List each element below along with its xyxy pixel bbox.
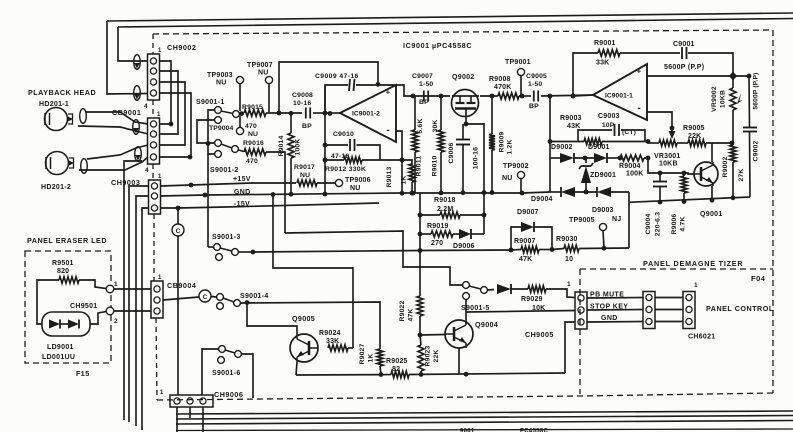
svg-text:33K: 33K bbox=[596, 60, 609, 67]
wire CB9004 pin2 to C node bbox=[163, 297, 199, 300]
wire switch bus lower contacts bbox=[197, 120, 215, 143]
svg-text:C9005: C9005 bbox=[526, 73, 547, 80]
shield ellipse CB9001 pin1 bbox=[133, 120, 140, 135]
svg-text:C9002: C9002 bbox=[753, 140, 760, 161]
wire S9001-3 arm to mute rail bbox=[238, 251, 253, 253]
svg-text:BP: BP bbox=[302, 123, 312, 130]
svg-text:R9004: R9004 bbox=[619, 163, 641, 170]
svg-text:220-6.3: 220-6.3 bbox=[655, 212, 662, 236]
svg-text:10-16: 10-16 bbox=[293, 100, 311, 107]
svg-text:IC9001: IC9001 bbox=[403, 41, 430, 50]
diode D9008 mute bbox=[487, 289, 494, 292]
wire limiter left column bbox=[549, 96, 551, 192]
wire terminal2 to CB9004 pin3 bbox=[114, 310, 151, 312]
svg-text:C9003: C9003 bbox=[598, 113, 620, 120]
wire bottom border line 3 bbox=[176, 421, 793, 425]
wire GND drop to drive line bbox=[273, 195, 353, 349]
svg-text:R9009: R9009 bbox=[499, 131, 506, 152]
svg-text:Q9004: Q9004 bbox=[475, 320, 498, 329]
wire top outer rail bbox=[107, 13, 793, 21]
wire S9001-6 arm stub bbox=[241, 354, 253, 398]
svg-text:NU: NU bbox=[248, 131, 258, 138]
wire into IC9001-2 output node bbox=[325, 112, 340, 114]
svg-text:D9003: D9003 bbox=[592, 207, 614, 214]
svg-text:1K: 1K bbox=[401, 175, 408, 184]
wire bottom left rail bbox=[296, 374, 391, 376]
svg-text:PLAYBACK HEAD: PLAYBACK HEAD bbox=[28, 88, 96, 97]
dashed main circuit boundary top bbox=[153, 30, 773, 34]
svg-text:R9024: R9024 bbox=[319, 330, 341, 337]
svg-text:PANEL ERASER LED: PANEL ERASER LED bbox=[27, 236, 107, 245]
wire Q9004 base bbox=[420, 334, 445, 337]
svg-text:ZD9001: ZD9001 bbox=[590, 172, 616, 179]
test point TP9006 bbox=[317, 182, 335, 184]
wire S9001-2 arm to R9016 bbox=[238, 150, 244, 152]
svg-text:PANEL CONTROL: PANEL CONTROL bbox=[706, 304, 774, 313]
svg-text:CH9005: CH9005 bbox=[525, 330, 554, 339]
wire left outer drop to shield bbox=[107, 21, 148, 94]
svg-text:R9001: R9001 bbox=[594, 40, 616, 47]
svg-text:Q9001: Q9001 bbox=[700, 211, 723, 218]
svg-text:1.2K: 1.2K bbox=[507, 139, 514, 154]
svg-text:D9004: D9004 bbox=[531, 196, 553, 203]
svg-text:100K: 100K bbox=[295, 138, 302, 155]
wire R9016 output to mute line bbox=[266, 152, 285, 233]
wire terminal1 to CB9004 pin1 bbox=[114, 288, 151, 290]
svg-text:470: 470 bbox=[245, 123, 257, 130]
svg-text:NU: NU bbox=[216, 80, 227, 87]
svg-text:-: - bbox=[386, 125, 389, 136]
svg-text:R9016: R9016 bbox=[243, 140, 264, 147]
svg-text:R9014: R9014 bbox=[278, 135, 285, 156]
wire Q9004 emitter bbox=[458, 348, 460, 374]
wire HD201-2 return to CB9001 pin4 bbox=[79, 157, 148, 170]
wire output node to tip bbox=[573, 95, 593, 96]
svg-text:5.6K: 5.6K bbox=[417, 118, 424, 133]
svg-text:R9013: R9013 bbox=[386, 166, 393, 187]
wire CB9001 shield drop bbox=[124, 161, 142, 420]
svg-text:R9008: R9008 bbox=[489, 76, 511, 83]
svg-text:C9007: C9007 bbox=[412, 73, 433, 80]
svg-text:PC4558C: PC4558C bbox=[520, 429, 548, 432]
svg-text:CH9501: CH9501 bbox=[70, 303, 97, 310]
wire S9001-4 arm line bbox=[240, 302, 380, 349]
wire GND rail to diode limiter bbox=[522, 192, 550, 193]
svg-text:NU: NU bbox=[258, 70, 269, 77]
svg-text:C: C bbox=[176, 228, 181, 235]
svg-text:TP9002: TP9002 bbox=[503, 163, 529, 170]
terminal 2 bbox=[106, 307, 114, 315]
svg-text:1: 1 bbox=[567, 281, 571, 288]
svg-text:S9001-6: S9001-6 bbox=[212, 370, 241, 377]
svg-text:100K: 100K bbox=[626, 171, 644, 178]
svg-text:D9001: D9001 bbox=[588, 144, 610, 151]
svg-text:R9018: R9018 bbox=[434, 197, 456, 204]
wire non-inverting input rail bbox=[647, 75, 749, 77]
svg-text:NJ: NJ bbox=[612, 216, 621, 223]
wire pin rows to CH6021 bbox=[655, 297, 683, 299]
svg-text:2: 2 bbox=[114, 318, 118, 325]
wire mute rail bbox=[253, 250, 511, 252]
svg-text:+15V: +15V bbox=[233, 176, 251, 183]
chassis node circle C lower bbox=[199, 290, 211, 302]
op-amp IC9001-2 bbox=[340, 85, 396, 142]
wire Q9005 emitter to rail bbox=[296, 362, 297, 375]
svg-text:1: 1 bbox=[114, 281, 118, 288]
wire S9001-6 contact to CH9006 bbox=[202, 349, 219, 395]
svg-text:R9017: R9017 bbox=[294, 164, 315, 171]
svg-text:R9012 330K: R9012 330K bbox=[325, 166, 366, 173]
wire CH9002 pin3 to CB9001 pin3 bbox=[160, 82, 186, 145]
wire Q9002 source node bbox=[464, 122, 469, 127]
wire signal main into first stage bbox=[266, 112, 302, 114]
wire S9001-5 lower contact to collector line bbox=[465, 299, 467, 312]
wire CH9002 pin2 to CB9001 pin2 bbox=[160, 71, 179, 134]
svg-text:S9001-1: S9001-1 bbox=[196, 99, 225, 106]
svg-text:S9001-2: S9001-2 bbox=[210, 167, 239, 174]
wire inverting input to VR3001 wiper bbox=[647, 112, 672, 128]
svg-text:TP9001: TP9001 bbox=[505, 59, 531, 66]
svg-text:C9001: C9001 bbox=[673, 41, 695, 48]
svg-text:10: 10 bbox=[565, 256, 573, 263]
svg-text:BP: BP bbox=[529, 103, 539, 110]
chassis node circle C upper bbox=[177, 208, 179, 224]
svg-text:820: 820 bbox=[57, 268, 69, 275]
wire CH9002 pin1 to CB9001 pin1 bbox=[160, 61, 172, 124]
svg-text:D9002: D9002 bbox=[551, 144, 573, 151]
dashed eraser box bbox=[25, 251, 111, 363]
svg-text:10KB: 10KB bbox=[720, 90, 727, 108]
terminal 1 bbox=[106, 285, 114, 293]
wire HD201-1 return to CB9001 pin2 bbox=[78, 126, 148, 134]
svg-text:VR3001: VR3001 bbox=[654, 153, 681, 160]
svg-text:NU: NU bbox=[502, 175, 513, 182]
svg-text:NU: NU bbox=[350, 185, 361, 192]
svg-text:5600P (P.P): 5600P (P.P) bbox=[753, 72, 760, 109]
svg-text:F04: F04 bbox=[751, 274, 766, 283]
svg-text:R9011: R9011 bbox=[416, 156, 423, 177]
wire op-amp top corner to main bbox=[396, 85, 413, 96]
op-amp IC9001-1 bbox=[593, 64, 647, 120]
svg-text:R9025: R9025 bbox=[386, 358, 408, 365]
svg-text:5600P (P.P): 5600P (P.P) bbox=[664, 64, 704, 71]
wire R9018 column bbox=[419, 193, 421, 251]
wire stop key line bbox=[466, 311, 575, 313]
svg-text:CB9004: CB9004 bbox=[167, 281, 196, 290]
svg-text:R9022: R9022 bbox=[399, 300, 406, 321]
svg-text:1-50: 1-50 bbox=[419, 81, 433, 88]
svg-text:100-16: 100-16 bbox=[473, 147, 480, 169]
wire main signal rail y96 bbox=[413, 95, 450, 97]
svg-text:CB9001: CB9001 bbox=[112, 108, 141, 117]
svg-text:R9027: R9027 bbox=[359, 343, 366, 364]
svg-text:270: 270 bbox=[431, 240, 443, 247]
svg-text:TP9007: TP9007 bbox=[247, 62, 273, 69]
svg-text:R9029: R9029 bbox=[521, 296, 543, 303]
wire drive line A to S9001-5 bbox=[285, 231, 462, 285]
svg-text:C: C bbox=[203, 294, 208, 301]
svg-text:R9007: R9007 bbox=[514, 238, 536, 245]
svg-text:VR9002: VR9002 bbox=[711, 86, 718, 112]
dashed panel demagnetizer box top bbox=[580, 268, 773, 270]
wire gnd line from rail bbox=[565, 322, 575, 373]
svg-text:R9501: R9501 bbox=[52, 260, 74, 267]
wire CH9006 pin1 down bbox=[176, 407, 178, 432]
dashed panel demagnetizer box left bbox=[579, 269, 581, 394]
wire CH9006 pin2 down bbox=[189, 407, 191, 418]
wire C9009/C9010 left column to GND bbox=[324, 85, 326, 194]
connector CH6021 bbox=[683, 292, 695, 329]
wire TP loop upper bbox=[279, 62, 378, 113]
svg-text:1: 1 bbox=[694, 282, 698, 289]
svg-text:TP9006: TP9006 bbox=[345, 177, 371, 184]
svg-text:4: 4 bbox=[144, 103, 148, 110]
wire CH9003 pin1 left drop bbox=[129, 186, 149, 422]
dashed main circuit boundary right bbox=[772, 30, 774, 393]
svg-text:4.7K: 4.7K bbox=[680, 216, 687, 231]
wire R9029 to PB MUTE pin bbox=[546, 289, 575, 298]
svg-text:47-16: 47-16 bbox=[331, 153, 349, 160]
svg-text:C9004: C9004 bbox=[645, 213, 652, 234]
wire bottom border line 1 bbox=[176, 411, 793, 414]
svg-text:Q9002: Q9002 bbox=[452, 74, 475, 81]
shield ellipse CH9002 pin1 bbox=[134, 55, 141, 70]
svg-text:TP9005: TP9005 bbox=[569, 217, 595, 224]
svg-text:CH6021: CH6021 bbox=[688, 334, 715, 341]
svg-text:PANEL DEMAGNE TIZER: PANEL DEMAGNE TIZER bbox=[643, 259, 743, 268]
svg-text:470K: 470K bbox=[494, 84, 512, 91]
svg-text:R9006: R9006 bbox=[671, 213, 678, 234]
svg-text:R9030: R9030 bbox=[556, 236, 578, 243]
svg-text:1K: 1K bbox=[368, 353, 375, 362]
svg-text:CH9002: CH9002 bbox=[167, 43, 196, 52]
wire CH9002 pin4 to CB9001 pin4 bbox=[160, 93, 192, 157]
wire Q9004 collector to stop key line bbox=[465, 312, 467, 320]
svg-text:CH9006: CH9006 bbox=[214, 390, 243, 399]
svg-text:47K: 47K bbox=[519, 256, 532, 263]
svg-text:C9008: C9008 bbox=[292, 92, 313, 99]
svg-text:27K: 27K bbox=[738, 168, 745, 181]
svg-text:10P: 10P bbox=[602, 122, 615, 129]
svg-text:9001: 9001 bbox=[460, 429, 475, 432]
wire top inner rail bbox=[118, 19, 793, 28]
wire CH9003 pin2 left drop bbox=[136, 196, 149, 426]
svg-text:C9010: C9010 bbox=[333, 131, 354, 138]
svg-text:S9001-4: S9001-4 bbox=[240, 293, 269, 300]
svg-text:C9009 47-16: C9009 47-16 bbox=[315, 73, 359, 80]
svg-text:D9007: D9007 bbox=[517, 209, 539, 216]
svg-text:µPC4558C: µPC4558C bbox=[432, 41, 472, 50]
connector middle bbox=[643, 292, 655, 329]
svg-text:47K: 47K bbox=[408, 308, 415, 321]
wire HD201-2 hot to CB9001 pin3 bbox=[87, 145, 148, 159]
svg-text:22K: 22K bbox=[433, 349, 440, 362]
wire bottom rail right section bbox=[629, 197, 750, 202]
wire C node down to CH9006 bbox=[177, 236, 179, 395]
svg-text:S9001-3: S9001-3 bbox=[212, 234, 241, 241]
svg-text:HD201-2: HD201-2 bbox=[41, 184, 71, 191]
svg-text:Q9005: Q9005 bbox=[292, 314, 315, 323]
wire CH9003 pin3 left drop bbox=[142, 208, 149, 430]
svg-text:43K: 43K bbox=[567, 123, 580, 130]
svg-text:C9006: C9006 bbox=[448, 142, 455, 163]
svg-text:TP9003: TP9003 bbox=[207, 72, 233, 79]
svg-text:+: + bbox=[637, 67, 642, 76]
svg-text:1-50: 1-50 bbox=[528, 81, 542, 88]
shield ellipse CH9002 pin4 bbox=[134, 86, 141, 101]
wire mute rail riser to bridge bbox=[628, 192, 630, 248]
wire pin rows to middle connector bbox=[587, 297, 643, 300]
dashed main circuit boundary bottom bbox=[157, 393, 773, 400]
svg-text:LD9001: LD9001 bbox=[47, 344, 74, 351]
svg-text:TP9004: TP9004 bbox=[209, 125, 234, 132]
wire CH9006 pin3 down bbox=[202, 407, 204, 432]
svg-text:D9006: D9006 bbox=[453, 243, 475, 250]
wire bottom border line 4 bbox=[176, 429, 793, 431]
svg-text:IC9001-2: IC9001-2 bbox=[352, 111, 380, 118]
svg-text:R9005: R9005 bbox=[683, 125, 705, 132]
svg-text:IC9001-1: IC9001-1 bbox=[605, 93, 633, 100]
wire bottom border line 2 bbox=[176, 416, 793, 420]
svg-text:NU: NU bbox=[300, 172, 310, 179]
wire HD201-1 hot to CB9001 pin1 bbox=[86, 112, 148, 124]
wire S9001-1 arm to R9015 bbox=[239, 113, 244, 116]
resistor R9009 1.2K bbox=[491, 96, 493, 134]
svg-text:R9010: R9010 bbox=[432, 155, 439, 176]
shield ellipse CB9001 pin4 bbox=[135, 147, 142, 162]
wire Q9005 collector bbox=[247, 303, 297, 335]
wire IC9001-2 inverting input bbox=[396, 131, 402, 194]
svg-text:R9023: R9023 bbox=[425, 345, 432, 366]
svg-text:4: 4 bbox=[145, 167, 149, 174]
shield ellipse head1 bbox=[80, 109, 87, 124]
wire left inner drop to CH9002 pin1 bbox=[118, 27, 148, 61]
svg-text:LD001UU: LD001UU bbox=[42, 354, 75, 361]
svg-text:-: - bbox=[637, 103, 640, 114]
dashed main circuit boundary left segments bbox=[152, 34, 154, 54]
wire bridge to Q9001 base rail bbox=[648, 158, 694, 174]
svg-text:470: 470 bbox=[246, 158, 258, 165]
svg-text:10KB: 10KB bbox=[659, 161, 678, 168]
svg-text:F15: F15 bbox=[76, 369, 90, 378]
wire switch bus upper contacts bbox=[208, 110, 215, 154]
svg-text:R9003: R9003 bbox=[560, 115, 582, 122]
svg-text:+: + bbox=[386, 88, 391, 97]
shield ellipse head2 bbox=[81, 159, 88, 174]
